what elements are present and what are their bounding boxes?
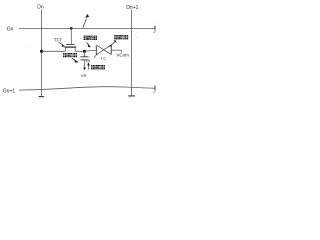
arrow bottom end of Dn+1: [128, 96, 135, 98]
arrow parasitic label to LC left plate: [86, 42, 91, 47]
arrow parasitic capacitance pointer at Gn: [83, 14, 89, 28]
svg-text:Gn+1: Gn+1: [3, 88, 16, 94]
junction dot pixel node: [83, 50, 86, 53]
wire gate line Gn: [19, 27, 155, 29]
label Gn+1: [3, 88, 16, 94]
transistor TFT channel bar: [64, 46, 76, 48]
arrow bottom end of Dn: [39, 97, 45, 99]
label TFT: [54, 37, 62, 42]
label LC: [101, 55, 106, 60]
arrow right end of Gn+1: [153, 86, 155, 93]
capacitor LC cell left plate: [95, 45, 97, 54]
svg-text:Dn+1: Dn+1: [126, 5, 138, 11]
label Dn: [37, 5, 44, 11]
arrow right end of Gn: [153, 26, 155, 33]
wire data line Dn: [41, 10, 43, 97]
label storage electrode (CJK lower): [91, 65, 105, 69]
label Gn: [7, 27, 14, 33]
wire data line Dn+1: [131, 10, 133, 96]
scan specks (decorative): [30, 22, 159, 47]
svg-text:VR: VR: [81, 73, 87, 78]
wire gate line Gn+1: [19, 87, 155, 90]
arrow LC label to LC cell: [109, 40, 117, 47]
capacitor Cs bottom plate: [80, 59, 88, 61]
label Vcom: [116, 53, 129, 58]
capacitor LC cell crossed diagonals: [94, 45, 111, 57]
wire Cs bottom lead: [84, 60, 86, 68]
wire pixel node to LC cell: [85, 49, 96, 52]
arrow storage label to Cs: [72, 58, 79, 63]
wire pixel node to Cs: [84, 51, 86, 56]
label liquid crystal capacitance (CJK): [114, 35, 128, 39]
arrow TFT label to transistor: [59, 42, 65, 47]
junction dot on Dn: [40, 50, 43, 53]
label Dn+1: [126, 5, 138, 11]
arrow lower label up to Cs: [87, 62, 90, 69]
label parasitic capacitance (CJK): [84, 36, 97, 40]
label Cs: [86, 59, 91, 63]
label storage capacitance (CJK upper): [63, 53, 77, 57]
wire LC cell to Vcom terminal: [112, 50, 122, 52]
svg-text:Dn: Dn: [37, 5, 44, 11]
wire TFT source lead: [64, 47, 66, 51]
junction dot gate of TFT on Gn: [70, 27, 73, 30]
svg-text:VCom: VCom: [116, 53, 129, 58]
svg-text:Cs: Cs: [86, 59, 91, 63]
arrow Cs lead down: [83, 68, 86, 71]
transistor TFT gate bar: [66, 44, 75, 46]
svg-text:TFT: TFT: [54, 37, 62, 42]
wire source to Dn: [42, 50, 66, 52]
capacitor Cs top plate: [80, 56, 88, 58]
wire TFT drain lead: [74, 47, 76, 51]
wire TFT gate lead: [70, 28, 72, 44]
capacitor LC cell right plate: [110, 45, 112, 54]
svg-text:LC: LC: [101, 55, 106, 60]
svg-text:Gn: Gn: [7, 27, 14, 33]
wire drain to pixel node: [75, 50, 84, 52]
label VR: [81, 73, 87, 78]
